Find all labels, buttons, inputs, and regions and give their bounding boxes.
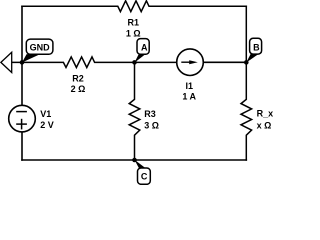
svg-text:2 Ω: 2 Ω xyxy=(71,84,86,94)
svg-text:1 Ω: 1 Ω xyxy=(126,28,141,38)
svg-text:R3: R3 xyxy=(144,109,156,119)
svg-text:I1: I1 xyxy=(185,81,193,91)
svg-text:C: C xyxy=(141,171,148,181)
svg-text:R_x: R_x xyxy=(257,109,273,119)
svg-text:2 V: 2 V xyxy=(40,120,54,130)
svg-text:R1: R1 xyxy=(128,18,140,28)
svg-text:R2: R2 xyxy=(72,74,84,84)
svg-text:3 Ω: 3 Ω xyxy=(144,120,159,130)
svg-text:A: A xyxy=(141,42,148,52)
svg-text:B: B xyxy=(253,42,260,52)
svg-text:1 A: 1 A xyxy=(182,91,196,101)
svg-text:x Ω: x Ω xyxy=(257,120,272,130)
svg-text:V1: V1 xyxy=(40,109,51,119)
svg-text:GND: GND xyxy=(30,42,51,52)
